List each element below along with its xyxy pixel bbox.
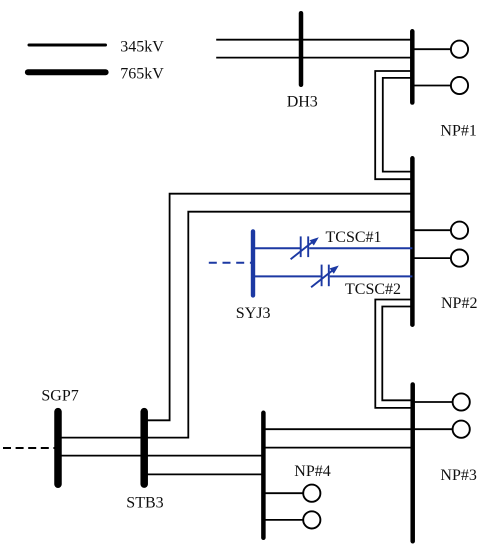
wire loop NP#2 to NP#3 inner (382, 307, 413, 401)
generator circle NP#2-1 (451, 222, 468, 239)
capacitor TCSC#1 plate 1 (300, 236, 302, 257)
wire long line SGP7 via STB3 to NP#2 (left path B) (58, 212, 412, 438)
bus NP#1 (410, 31, 415, 102)
bus DH3 (299, 13, 304, 85)
wire loop NP#1 to NP#2 inner (383, 78, 413, 172)
svg-text:NP#1: NP#1 (440, 122, 476, 139)
generator circle NP#3-2 (453, 421, 470, 438)
bus NP#2 (410, 158, 415, 324)
wire dashed blue stub into SYJ3 (209, 262, 251, 264)
svg-text:STB3: STB3 (126, 495, 163, 512)
legend 345kV line (29, 44, 106, 47)
svg-text:DH3: DH3 (287, 93, 318, 110)
wire 345kV line 1 from DH3 to NP#1 (216, 39, 412, 41)
wire loop NP#1 to NP#2 outer (375, 71, 412, 179)
svg-text:NP#4: NP#4 (294, 463, 330, 480)
wire to NP#1 generator 2 (412, 85, 451, 87)
wire to NP#1 generator 1 (412, 48, 451, 50)
wire to NP#3 generator 1 (413, 401, 453, 403)
wire NP#4 to NP#3 line 2 (263, 447, 412, 449)
generator circle NP#1-2 (451, 77, 468, 94)
generator circle NP#4-1 (303, 485, 320, 502)
wire TCSC#1 line right segment (309, 247, 412, 249)
capacitor TCSC#2 plate 1 (321, 265, 323, 287)
wire 345kV line 2 from DH3 to NP#1 (216, 57, 412, 59)
wire to NP#4 generator 1 (263, 492, 303, 494)
generator circle NP#3-1 (453, 393, 470, 410)
bus SYJ3 (251, 231, 255, 295)
wire to NP#2 generator 2 (412, 257, 451, 259)
wire long line STB3 to NP#2 (left path A) (145, 194, 412, 421)
capacitor TCSC#2 plate 2 (328, 265, 330, 287)
wire SGP7-STB3-NP#4 (third line) (59, 455, 263, 457)
wire TCSC#1 line left segment (253, 247, 300, 249)
svg-text:SYJ3: SYJ3 (236, 305, 271, 322)
wire dashed 765kV stub into SGP7 (3, 447, 56, 449)
bus STB3 (140, 412, 148, 485)
generator circle NP#4-2 (303, 511, 320, 528)
svg-text:SGP7: SGP7 (41, 388, 78, 405)
wire TCSC#2 line right segment (330, 275, 413, 277)
bus NP#3 (410, 385, 415, 542)
svg-text:TCSC#1: TCSC#1 (326, 229, 382, 246)
capacitor TCSC#1 plate 2 (307, 236, 309, 257)
bus NP#4 (261, 413, 266, 538)
legend 765kV line (28, 69, 106, 75)
wire NP#4 to NP#3 line 1 and generator stub (263, 428, 452, 430)
wire STB3-NP#4 (fourth line) (145, 473, 263, 475)
svg-text:NP#2: NP#2 (441, 295, 477, 312)
arrow TCSC#2 (311, 266, 339, 288)
bus SGP7 (54, 412, 62, 485)
svg-text:345kV: 345kV (120, 38, 164, 55)
wire loop NP#2 to NP#3 outer (375, 300, 413, 408)
generator circle NP#1-1 (451, 41, 468, 58)
wire to NP#2 generator 1 (412, 229, 451, 231)
wire to NP#4 generator 2 (263, 519, 303, 521)
svg-text:765kV: 765kV (120, 66, 164, 83)
wire TCSC#2 line left segment (253, 275, 321, 277)
svg-text:NP#3: NP#3 (440, 467, 476, 484)
svg-text:TCSC#2: TCSC#2 (345, 281, 401, 298)
generator circle NP#2-2 (451, 250, 468, 267)
arrow TCSC#1 (291, 237, 319, 259)
